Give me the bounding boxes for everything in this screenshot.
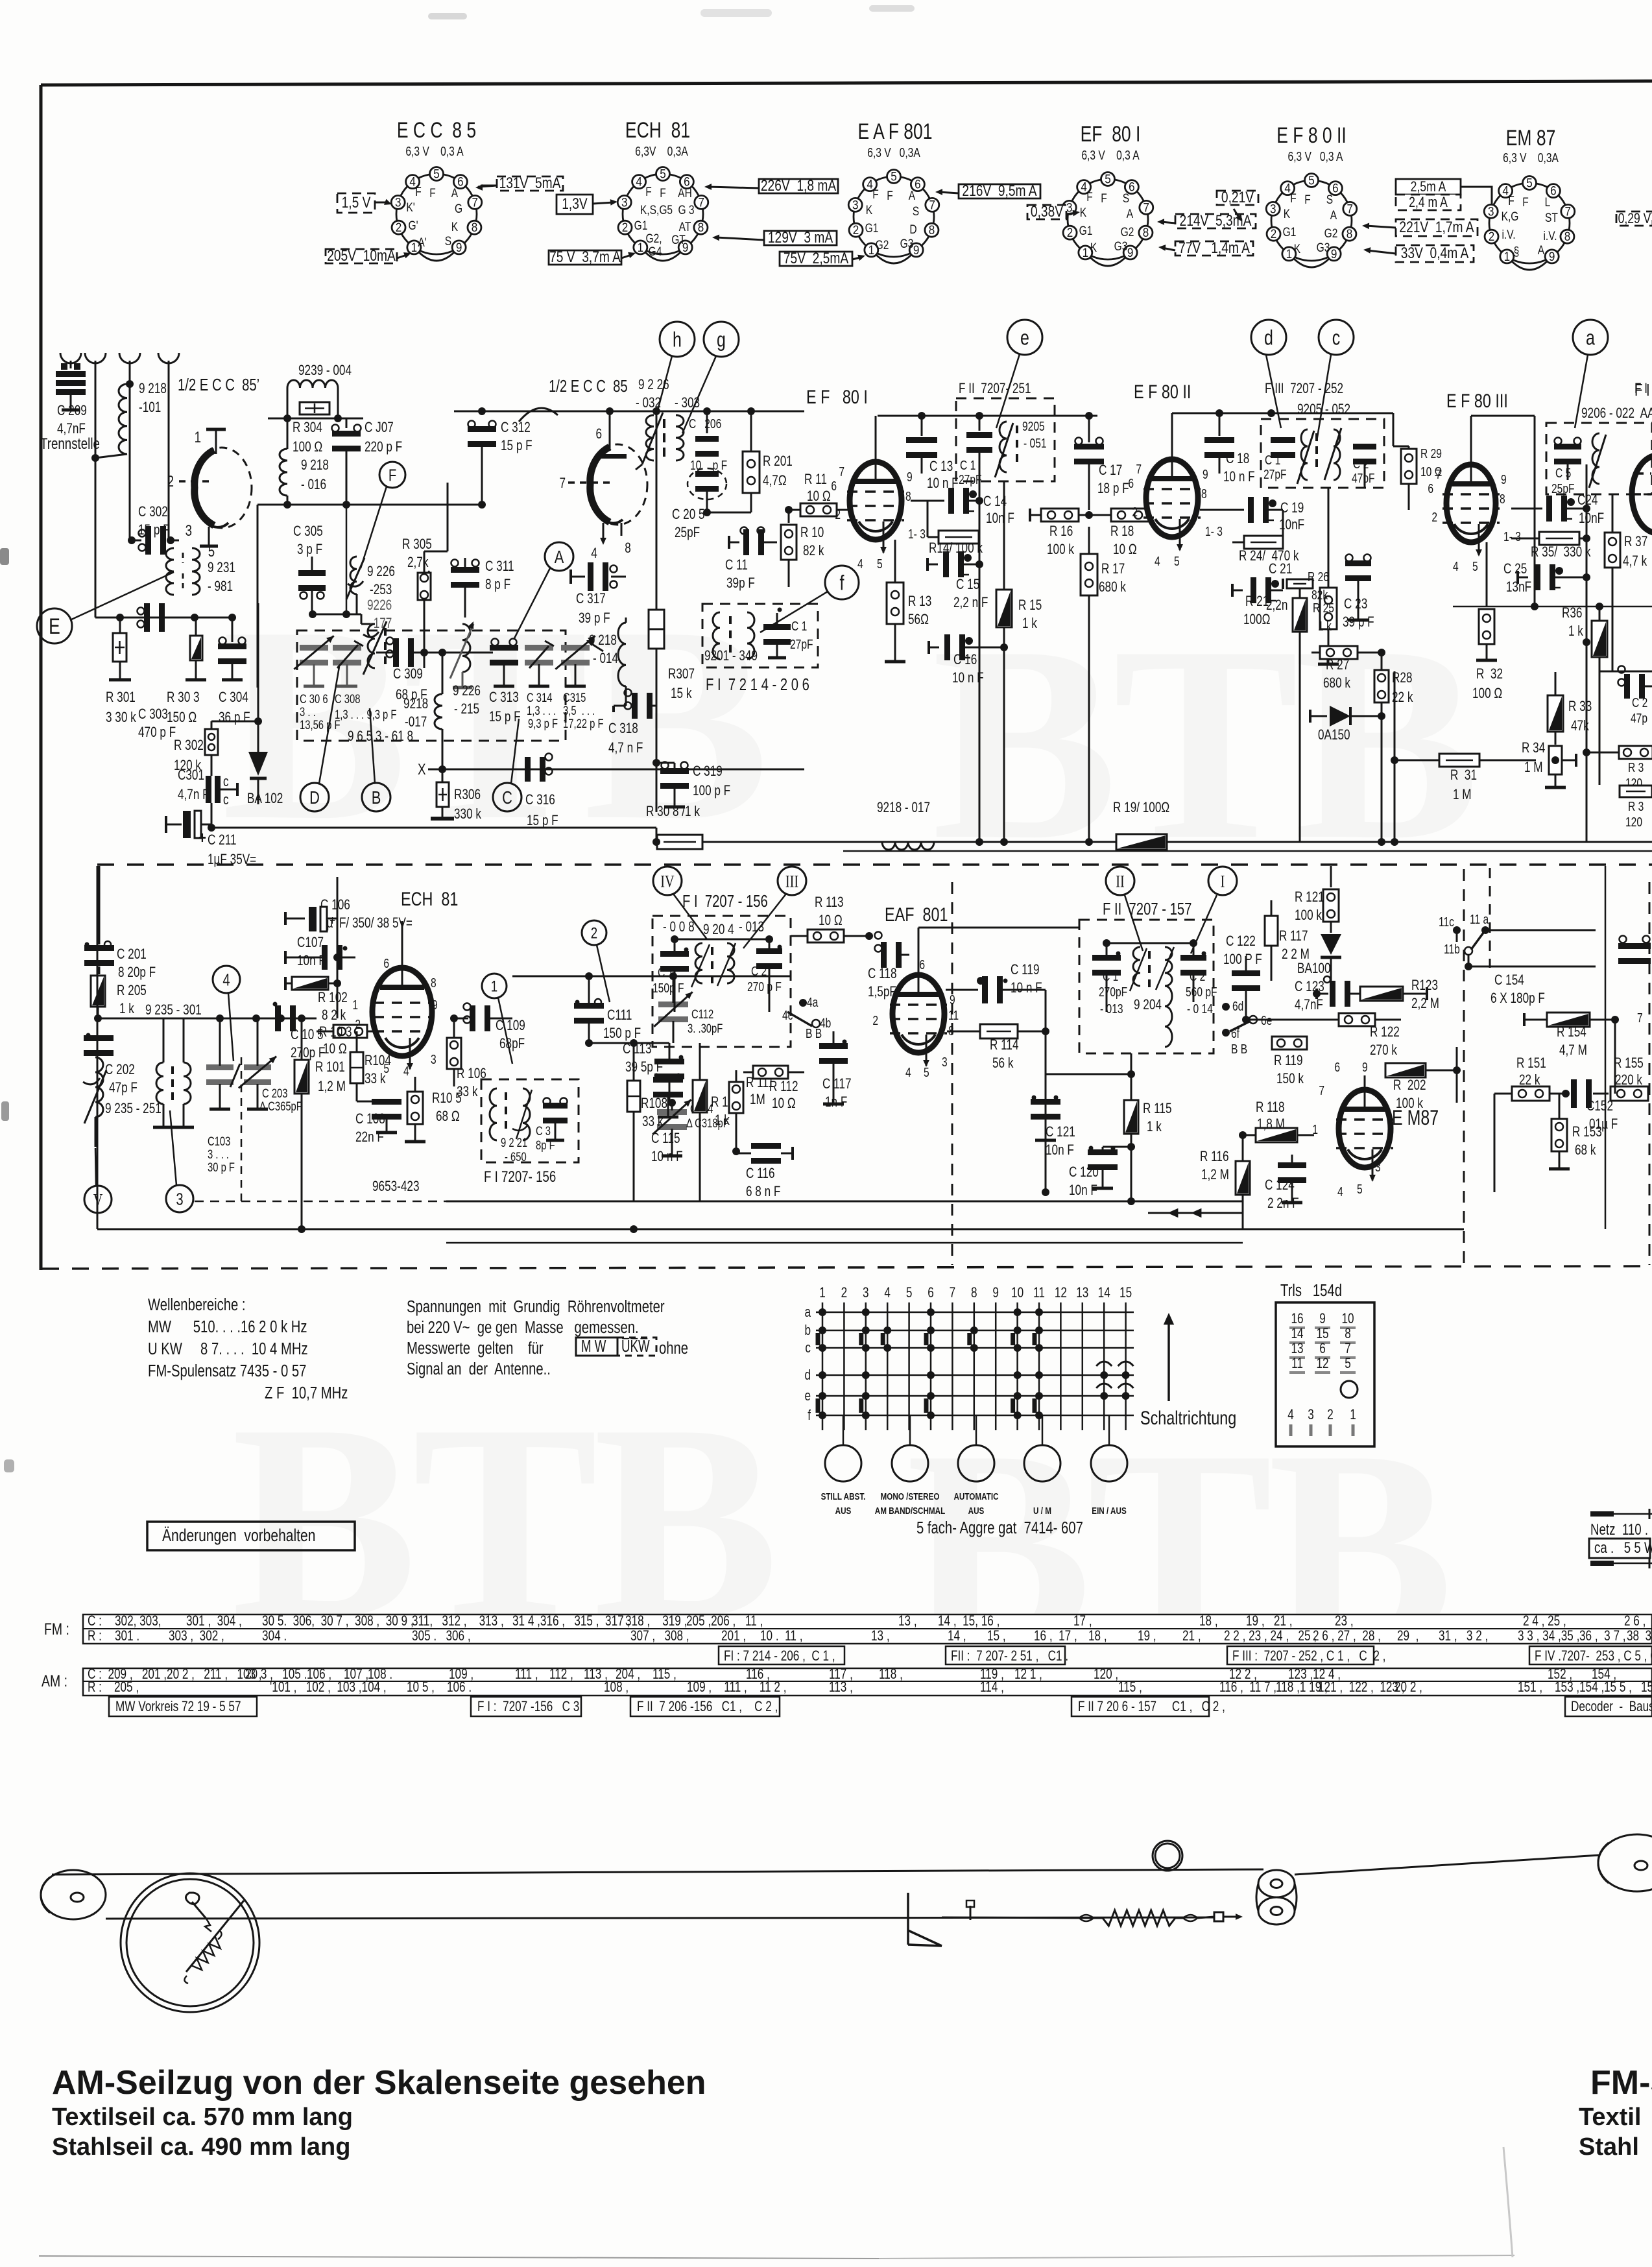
svg-text:10 n F: 10 n F (651, 1149, 683, 1165)
svg-text:2: 2 (841, 1285, 848, 1301)
coil 9218-017 (424, 653, 425, 668)
capacitor C123 4,7nF (1330, 981, 1335, 1007)
svg-text:Textilseil ca. 570 mm lang: Textilseil ca. 570 mm lang (52, 2104, 353, 2131)
svg-text:R 113: R 113 (815, 894, 844, 911)
svg-text:113 ,: 113 , (829, 1679, 853, 1696)
svg-text:6d: 6d (1232, 999, 1243, 1013)
svg-text:4: 4 (1287, 1407, 1294, 1423)
svg-text:6: 6 (928, 1285, 934, 1301)
wire AM bottom buses (97, 1229, 1464, 1230)
svg-text:1/2 E C C 85: 1/2 E C C 85 (549, 377, 628, 396)
capacitor C108 22nF (372, 1099, 401, 1105)
svg-text:L: L (1545, 195, 1551, 210)
svg-text:302, 303,: 302, 303, (115, 1613, 162, 1629)
svg-text:25pF: 25pF (675, 525, 700, 541)
svg-text:B B: B B (806, 1026, 822, 1040)
svg-text:A: A (1127, 207, 1134, 221)
svg-text:2: 2 (1067, 226, 1073, 239)
svg-text:30 p F: 30 p F (208, 1160, 235, 1174)
svg-text:8: 8 (1564, 230, 1571, 243)
svg-text:108 ,: 108 , (604, 1679, 628, 1696)
resistor R25 1k (1293, 598, 1307, 632)
capacitor C206 10pF (706, 411, 708, 433)
svg-text:10: 10 (1011, 1285, 1024, 1301)
resistor R17 680k (1088, 515, 1090, 555)
dial cord top run (52, 1869, 1263, 1875)
svg-text:AUTOMATIC: AUTOMATIC (953, 1491, 998, 1502)
svg-text:2,7k: 2,7k (407, 555, 429, 571)
svg-text:118 ,: 118 , (879, 1666, 903, 1683)
svg-text:FM-Spulensatz 7435 - 0 57: FM-Spulensatz 7435 - 0 57 (148, 1361, 306, 1380)
capacitor C154 6x180pF (1618, 943, 1651, 949)
svg-text:A: A (1538, 243, 1545, 258)
svg-text:F III : 7207 - 252 , C 1 ,: F III : 7207 - 252 , C 1 , C 2 , (1232, 1648, 1385, 1664)
svg-text:5: 5 (660, 167, 666, 181)
test point E (37, 608, 72, 643)
svg-text:Textil: Textil (1579, 2104, 1641, 2131)
capacitor C312 15pF (468, 426, 496, 432)
svg-text:3: 3 (1488, 205, 1494, 219)
svg-text:§: § (1514, 245, 1520, 259)
svg-text:F II 7207 - 157: F II 7207 - 157 (1103, 900, 1191, 918)
capacitor C318 4,7nF (612, 706, 615, 712)
resistor R11 10ohm (grid stopper) (800, 503, 837, 516)
svg-text:C 2: C 2 (1632, 695, 1647, 710)
svg-text:6: 6 (1332, 182, 1339, 195)
svg-text:6 8 n F: 6 8 n F (746, 1184, 780, 1200)
svg-text:7: 7 (839, 464, 844, 479)
svg-text:Messwerte gelten für: Messwerte gelten für (407, 1339, 544, 1358)
capacitor C124 22nF (1278, 1162, 1306, 1168)
svg-text:10 n F: 10 n F (952, 670, 984, 686)
svg-text:AM :: AM : (42, 1672, 67, 1690)
svg-text:E: E (49, 614, 60, 639)
wire antenna verticals (95, 368, 97, 458)
svg-text:S: S (1123, 191, 1129, 206)
test point V (84, 1186, 112, 1213)
svg-text:1: 1 (352, 998, 358, 1012)
test point B (362, 783, 390, 811)
svg-text:2,4 m A: 2,4 m A (1409, 195, 1448, 210)
svg-text:A: A (1330, 208, 1337, 222)
svg-text:C 119: C 119 (1011, 962, 1040, 978)
svg-text:C 122: C 122 (1226, 933, 1256, 950)
svg-text:68 k: 68 k (1575, 1142, 1596, 1158)
cord loop circle (1153, 1841, 1182, 1871)
svg-text:a: a (804, 1304, 811, 1321)
svg-text:5: 5 (891, 170, 897, 184)
resistor R27 680k (1320, 646, 1358, 659)
svg-text:G': G' (408, 219, 418, 233)
resistor R29 10ohm (1393, 413, 1395, 446)
wire node to FI filter (707, 512, 751, 514)
svg-text:c: c (223, 792, 229, 808)
svg-text:F: F (1508, 194, 1514, 208)
svg-text:8 2 k: 8 2 k (322, 1007, 346, 1024)
svg-text:6: 6 (919, 957, 925, 972)
svg-text:- 0 14: - 0 14 (1187, 1002, 1213, 1016)
svg-text:C 11: C 11 (725, 557, 748, 573)
svg-text:216V 9,5m A: 216V 9,5m A (962, 182, 1037, 200)
voltage box 226V 1,8mA (to ECH81 pin 6) (759, 179, 838, 193)
bus y=1505 AM (512, 976, 791, 978)
svg-text:9 218: 9 218 (301, 457, 329, 474)
oscillator coil 9231-981 (166, 548, 174, 595)
svg-text:R 114: R 114 (990, 1037, 1019, 1053)
svg-text:1,3 . . .: 1,3 . . . (527, 704, 556, 717)
svg-text:1: 1 (1312, 1122, 1318, 1136)
diode BA100 (1321, 934, 1341, 955)
svg-text:R 118: R 118 (1256, 1099, 1285, 1116)
svg-text:R 121: R 121 (1295, 889, 1324, 906)
resistor R109 1k (693, 1080, 707, 1112)
svg-text:14 ,: 14 , (948, 1628, 966, 1644)
variable capacitor C203 delta C365pF (244, 1064, 271, 1070)
svg-text:8: 8 (929, 223, 935, 237)
svg-text:G 3: G 3 (678, 203, 694, 217)
svg-text:C 109: C 109 (496, 1018, 525, 1034)
resistor R111 1M (729, 1082, 743, 1113)
svg-text:19 ,: 19 , (1138, 1628, 1156, 1644)
svg-text:F II 7 20 6 - 157 C1 , C: F II 7 20 6 - 157 C1 , C 2 , (1078, 1699, 1225, 1715)
svg-text:4: 4 (884, 1285, 891, 1301)
svg-text:A: A (909, 189, 916, 203)
top bus wire y=634 (454, 411, 804, 413)
variable capacitor C103 (206, 1064, 233, 1070)
capacitor C1 150pF (IV) (660, 951, 689, 957)
test point e leader (1007, 320, 1042, 355)
resistor R13 56ohm (894, 540, 896, 584)
svg-text:39p F: 39p F (726, 575, 755, 592)
svg-text:- 013: - 013 (1100, 1002, 1123, 1016)
svg-text:6 X 180p F: 6 X 180p F (1490, 990, 1545, 1007)
svg-text:11: 11 (948, 1008, 959, 1022)
partial tube at right edge (FM) (1632, 455, 1652, 533)
svg-text:F: F (872, 187, 879, 202)
svg-text:330 k: 330 k (454, 806, 481, 822)
svg-text:301 .: 301 . (115, 1628, 139, 1644)
svg-text:7: 7 (472, 196, 479, 210)
svg-text:25pF: 25pF (1551, 481, 1575, 496)
resistor R33 47k (1548, 695, 1563, 732)
wire bus 1448 inside FI (675, 939, 769, 941)
svg-text:2: 2 (622, 221, 628, 234)
svg-text:2,2 n F: 2,2 n F (953, 595, 988, 611)
variable capacitor C315 (561, 645, 590, 651)
svg-text:- 981: - 981 (208, 579, 233, 595)
trimmer coil 9226-215 (462, 624, 470, 672)
svg-text:C 209: C 209 (57, 403, 87, 419)
svg-text:4,7 k: 4,7 k (1623, 553, 1647, 570)
svg-text:112 ,: 112 , (549, 1666, 573, 1683)
svg-text:33 k: 33 k (457, 1084, 478, 1100)
resistor R155 220k (1610, 1086, 1648, 1101)
svg-text:2 2n F: 2 2n F (1267, 1195, 1299, 1212)
svg-text:4: 4 (403, 1064, 409, 1078)
svg-text:7: 7 (1637, 1011, 1643, 1025)
svg-text:C 5: C 5 (1555, 466, 1571, 480)
svg-text:R 112: R 112 (769, 1079, 798, 1095)
svg-text:Trls 154d: Trls 154d (1280, 1281, 1342, 1300)
svg-text:K: K (1080, 206, 1087, 220)
svg-text:11 ,: 11 , (745, 1613, 763, 1629)
capacitor C16 10nF (929, 647, 939, 649)
resistor R24 470k (1244, 536, 1283, 549)
svg-text:5: 5 (877, 557, 883, 571)
svg-text:20 2 ,: 20 2 , (1395, 1679, 1422, 1696)
svg-text:R 305: R 305 (402, 536, 432, 553)
svg-text:1,3 . . . 9,3 p F: 1,3 . . . 9,3 p F (335, 708, 396, 721)
capacitor C15 2,2nF (928, 564, 938, 566)
svg-text:1/2 E C C 85’: 1/2 E C C 85’ (178, 376, 259, 394)
svg-text:F: F (645, 185, 652, 199)
svg-text:C 117: C 117 (822, 1076, 851, 1092)
voltage box 131V 5mA (to ECC85 pin 6) (497, 176, 563, 191)
svg-text:F I 7207- 156: F I 7207- 156 (484, 1168, 556, 1186)
svg-text:F: F (1101, 191, 1107, 206)
svg-text:1 k: 1 k (715, 1112, 730, 1129)
svg-text:31 4 ,316 , 315 , 317 ,: 31 4 ,316 , 315 , 317 , (512, 1613, 630, 1629)
svg-text:R 34: R 34 (1522, 740, 1545, 756)
svg-text:R 26: R 26 (1308, 570, 1329, 584)
svg-text:U KW 8 7. . . . 10 4 MHz: U KW 8 7. . . . 10 4 MHz (148, 1339, 308, 1358)
svg-text:C 313: C 313 (489, 690, 519, 706)
svg-text:29 ,: 29 , (1397, 1628, 1419, 1644)
svg-text:150 k: 150 k (1276, 1071, 1304, 1087)
capacitor C307 220pF (346, 418, 348, 428)
vertical dashed chassis line (1463, 869, 1465, 1266)
dashed separator 2 (42, 1266, 1652, 1269)
capacitor C316 15pF (525, 757, 531, 782)
svg-text:R123: R123 (1411, 978, 1438, 994)
wire EF80I plate bus (878, 415, 1097, 417)
svg-text:U / M: U / M (1033, 1505, 1051, 1517)
svg-text:68pF: 68pF (499, 1036, 525, 1052)
dashed IF transformer FI 7207-156 (652, 916, 791, 1047)
svg-text:13: 13 (1076, 1285, 1088, 1301)
svg-text:6: 6 (1129, 180, 1135, 194)
svg-text:3 30 k: 3 30 k (106, 710, 136, 726)
svg-text:33 k: 33 k (365, 1071, 386, 1087)
svg-text:2 6 , 27 , 28 ,: 2 6 , 27 , 28 , (1313, 1628, 1381, 1644)
svg-text:Stahlseil ca. 490 mm lang: Stahlseil ca. 490 mm lang (52, 2133, 350, 2161)
svg-text:Wellenbereiche :: Wellenbereiche : (148, 1295, 246, 1314)
capacitor C2 270pF (III) (756, 948, 782, 954)
svg-text:6,3 V 0,3 A: 6,3 V 0,3 A (1288, 149, 1343, 163)
dashed vertical below separator right (1489, 868, 1491, 968)
svg-text:1 M: 1 M (1524, 760, 1543, 776)
svg-text:C 1: C 1 (791, 619, 807, 633)
svg-text:7: 7 (1319, 1083, 1324, 1098)
svg-text:X: X (418, 761, 425, 778)
svg-text:R 3: R 3 (1628, 799, 1644, 813)
variable capacitor C314 (525, 645, 553, 651)
junction at Trennstelle wire (91, 454, 99, 462)
svg-text:4: 4 (905, 1065, 911, 1079)
svg-text:- 650: - 650 (505, 1150, 527, 1164)
svg-text:5: 5 (924, 1065, 929, 1079)
svg-text:R 16: R 16 (1049, 523, 1073, 540)
svg-text:9: 9 (432, 998, 438, 1012)
svg-text:K,S,G5: K,S,G5 (640, 203, 673, 217)
resistor R304 100 ohm (268, 418, 363, 420)
svg-text:6: 6 (915, 178, 921, 191)
svg-text:A: A (451, 186, 459, 200)
svg-text:R 25: R 25 (1313, 601, 1334, 615)
svg-text:1: 1 (491, 978, 497, 995)
resistor R34 1M (1549, 746, 1562, 774)
wire EM87 grid (1330, 1070, 1332, 1090)
svg-text:F: F (1086, 190, 1093, 204)
svg-text:15 k: 15 k (671, 686, 692, 702)
svg-text:220 p F: 220 p F (365, 439, 402, 455)
svg-text:10: 10 (1341, 1311, 1354, 1327)
svg-text:4: 4 (636, 175, 642, 189)
svg-text:AT: AT (679, 220, 691, 234)
coil pair FII157 (1133, 947, 1140, 986)
resistor R151 22k (1512, 1086, 1550, 1101)
coil FI right (747, 612, 754, 659)
dashed vertical right edge AM (1649, 882, 1651, 1265)
svg-text:36 p F: 36 p F (219, 710, 250, 726)
svg-text:3: 3 (1270, 202, 1276, 216)
svg-text:109 , 111 , 11 2 ,: 109 , 111 , 11 2 , (687, 1679, 787, 1696)
svg-text:120: 120 (1625, 815, 1642, 829)
svg-text:100 Ω: 100 Ω (1472, 686, 1502, 702)
svg-text:C 108: C 108 (355, 1111, 385, 1127)
svg-text:FM :: FM : (44, 1620, 69, 1638)
svg-text:5: 5 (1357, 1182, 1363, 1196)
svg-text:Spannungen mit Grundig Röhr: Spannungen mit Grundig Röhrenvoltmeter (407, 1297, 665, 1316)
svg-text:C 120: C 120 (1069, 1164, 1099, 1181)
svg-text:f: f (808, 1408, 811, 1424)
svg-text:- 051: - 051 (1024, 436, 1047, 450)
resistor R30 120k stub (1620, 786, 1652, 797)
svg-text:G3: G3 (1114, 239, 1128, 254)
voltage box 1,3V (to ECH81 pin 3) (557, 195, 593, 214)
svg-text:R 15: R 15 (1018, 597, 1042, 614)
capacitor C319 100pF (656, 762, 675, 764)
svg-text:GT: GT (671, 233, 686, 247)
svg-text:G2: G2 (1121, 225, 1134, 239)
svg-text:C 203: C 203 (262, 1086, 287, 1100)
svg-text:C103: C103 (208, 1134, 230, 1148)
dial cord small pulley left (41, 1870, 106, 1919)
svg-text:9: 9 (456, 241, 462, 254)
test point c leader (1319, 320, 1354, 355)
svg-text:R 116: R 116 (1200, 1149, 1229, 1165)
wire to tube grid (95, 458, 97, 618)
svg-text:F: F (415, 185, 422, 199)
svg-text:EM 87: EM 87 (1506, 126, 1556, 150)
resistor R117 22M (1265, 916, 1278, 946)
capacitor C19 10nF (1248, 497, 1254, 523)
svg-text:13nF: 13nF (1506, 579, 1531, 595)
svg-text:R 205: R 205 (117, 983, 147, 999)
resistor R307 15k (656, 411, 658, 610)
AM filter boxes row (109, 1697, 257, 1716)
svg-text:F I : 7207 -156 C 3: F I : 7207 -156 C 3 (477, 1699, 579, 1715)
svg-text:K: K (1090, 241, 1097, 255)
test point 4 (213, 966, 240, 993)
svg-text:10n F: 10n F (1069, 1182, 1097, 1199)
svg-text:6: 6 (1428, 481, 1433, 496)
resistor R15 1k (thermistor) (996, 590, 1012, 627)
svg-text:R 155: R 155 (1614, 1055, 1644, 1072)
svg-text:D: D (909, 222, 916, 237)
svg-text:III: III (785, 872, 798, 891)
svg-text:12: 12 (1316, 1356, 1328, 1372)
anchor post (970, 1906, 972, 1920)
svg-text:1 k: 1 k (1318, 619, 1332, 633)
svg-text:1 M: 1 M (1453, 787, 1472, 803)
svg-text:680 k: 680 k (1323, 675, 1350, 691)
wire right column verticals (1534, 416, 1536, 610)
svg-text:205V 10mA: 205V 10mA (327, 246, 396, 265)
svg-text:19 , 21 ,: 19 , 21 , (1246, 1613, 1293, 1629)
svg-text:C 23: C 23 (1344, 596, 1367, 612)
switch matrix horizontal wires (816, 1312, 1134, 1313)
capacitor C309 68pF (376, 652, 394, 654)
svg-text:9205 - 052: 9205 - 052 (1297, 402, 1350, 418)
test point g (704, 322, 739, 357)
svg-text:30 5. 306, 30 7 , 308 , 30: 30 5. 306, 30 7 , 308 , 30 9 , (262, 1613, 414, 1629)
svg-text:4: 4 (1155, 554, 1160, 568)
svg-text:6,3V 0,3A: 6,3V 0,3A (635, 144, 688, 158)
test points II and I (1106, 867, 1134, 895)
scanner edge smudges (0, 548, 9, 565)
svg-text:C 201: C 201 (117, 946, 147, 963)
capacitor C1 27pF (FI) (763, 624, 791, 630)
svg-text:R 202: R 202 (1393, 1077, 1426, 1094)
switch matrix vertical wires (822, 1302, 824, 1430)
capacitor C2 560pF (I) (1180, 955, 1206, 961)
svg-text:470 p F: 470 p F (138, 725, 176, 741)
svg-text:15: 15 (1316, 1326, 1328, 1342)
svg-text:10n F: 10n F (297, 953, 326, 969)
svg-text:10 n F: 10 n F (1223, 469, 1255, 485)
resistor R115 1k (1124, 1100, 1138, 1134)
svg-text:1,2 M: 1,2 M (1201, 1167, 1229, 1183)
capacitor C3 8pF (FI156) (543, 1103, 568, 1109)
svg-text:G3: G3 (1317, 241, 1330, 255)
svg-text:C 303: C 303 (138, 706, 168, 723)
svg-text:C 316: C 316 (525, 792, 555, 808)
svg-text:AM-Seilzug von der Skalenseite: AM-Seilzug von der Skalenseite gesehen (52, 2064, 706, 2102)
svg-text:IV: IV (660, 872, 675, 891)
svg-text:c: c (223, 774, 229, 790)
svg-text:100 P F: 100 P F (1223, 952, 1262, 968)
diode OA150 (1310, 715, 1327, 717)
svg-text:8: 8 (472, 221, 478, 234)
svg-text:C 1: C 1 (658, 965, 673, 979)
resistor R116 1,2M (1236, 1161, 1250, 1195)
svg-text:G2: G2 (1324, 226, 1338, 241)
capacitor C24 10nF (1546, 496, 1552, 522)
svg-text:5: 5 (906, 1285, 913, 1301)
svg-text:Signal an der Antenne..: Signal an der Antenne.. (407, 1360, 551, 1378)
svg-text:-101: -101 (139, 400, 161, 416)
svg-text:16: 16 (1291, 1311, 1303, 1327)
svg-text:11c: 11c (1439, 915, 1454, 929)
svg-text:R 29: R 29 (1420, 446, 1442, 461)
voltage box 216V 9,5mA (to EAF801 pin 6) (959, 184, 1040, 198)
svg-text:38 39: 38 39 (1627, 1628, 1652, 1644)
capacitor C303 470pF (144, 603, 150, 632)
capacitor C117 1nF (819, 1043, 848, 1049)
svg-text:13 ,: 13 , (898, 1613, 917, 1629)
svg-text:82 k: 82 k (803, 543, 824, 559)
